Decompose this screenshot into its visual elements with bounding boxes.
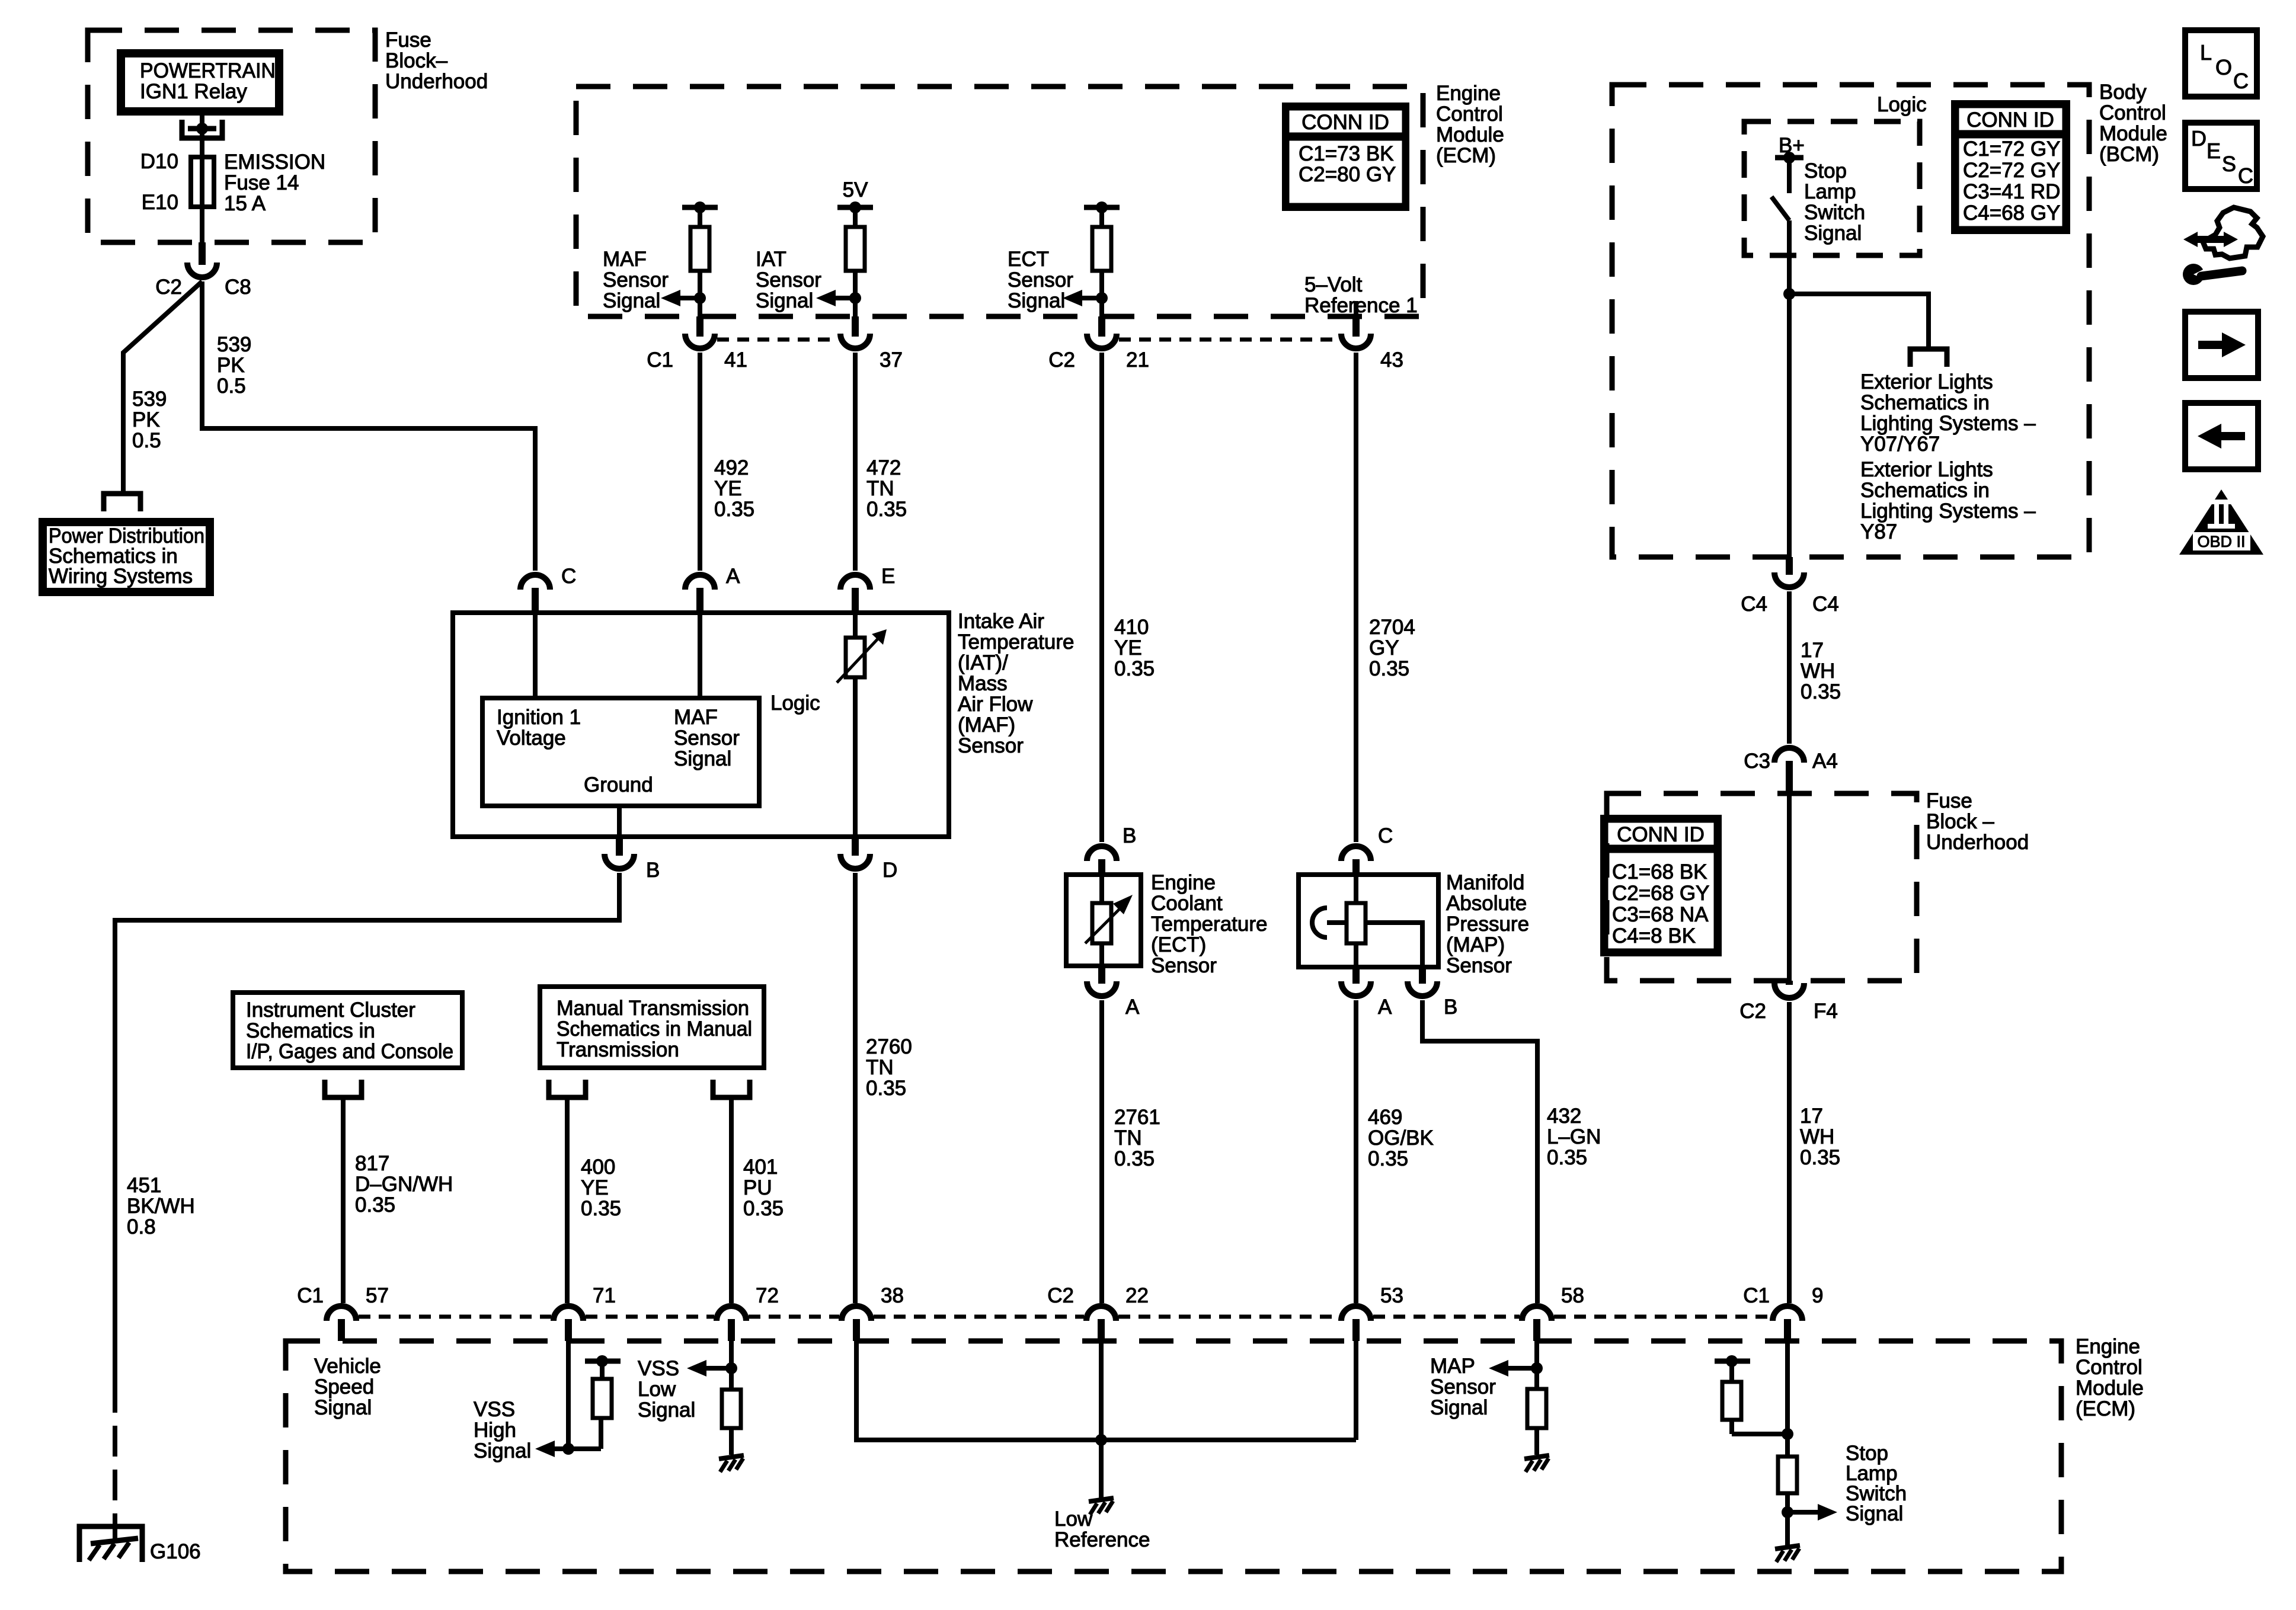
connector cup 38 (ECM bottom) — [842, 1306, 871, 1321]
svg-text:B: B — [646, 859, 660, 882]
svg-text:Block–: Block– — [385, 49, 448, 72]
svg-text:Module: Module — [1436, 123, 1504, 146]
svg-text:58: 58 — [1561, 1284, 1584, 1307]
connector dashed tie line (bottom row) — [359, 1315, 551, 1319]
connector pin 58 — [1533, 1319, 1540, 1341]
MAF connector cup B — [605, 854, 634, 869]
wire 492 YE: pin 41 to MAF A — [698, 353, 702, 571]
connector pin 37 (ECM top) — [852, 316, 859, 337]
svg-text:C: C — [1378, 824, 1393, 847]
svg-text:YE: YE — [714, 477, 742, 500]
svg-text:C: C — [2238, 164, 2253, 188]
svg-text:POWERTRAIN: POWERTRAIN — [140, 59, 276, 82]
svg-text:Schematics in Manual: Schematics in Manual — [557, 1017, 752, 1041]
svg-text:492: 492 — [714, 456, 749, 479]
junction (low reference) — [1095, 1434, 1107, 1446]
svg-text:Reference: Reference — [1054, 1528, 1150, 1551]
MAP connector cup A — [1341, 981, 1371, 996]
wire 2761 TN: ECT A to ECM pin 22 — [1099, 1000, 1104, 1303]
svg-text:0.35: 0.35 — [866, 1077, 906, 1100]
connector pin 38 — [853, 1319, 860, 1341]
MAP connector pin C — [1352, 859, 1360, 876]
ECT sensor signal pull-up rail bar — [1084, 205, 1120, 210]
wire 17 WH: BCM C4 to fuse block A4 — [1787, 591, 1792, 744]
svg-text:Wiring Systems: Wiring Systems — [49, 565, 193, 588]
svg-text:Module: Module — [2099, 122, 2167, 145]
svg-text:Instrument Cluster: Instrument Cluster — [246, 998, 415, 1022]
svg-text:Sensor: Sensor — [674, 726, 740, 750]
wire: ignition 1 voltage inside sensor — [533, 613, 538, 698]
svg-text:IGN1 Relay: IGN1 Relay — [140, 80, 247, 103]
svg-text:TN: TN — [866, 1056, 894, 1079]
MAF connector cup C — [520, 575, 550, 590]
svg-text:Manual Transmission: Manual Transmission — [557, 997, 749, 1020]
MAP sensor signal network — [1534, 1341, 1539, 1389]
wire IAT signal inside ECM — [853, 271, 858, 316]
wire 451 dashed continuation — [113, 1382, 117, 1525]
svg-text:D10: D10 — [140, 150, 178, 173]
svg-text:Y07/Y67: Y07/Y67 — [1860, 433, 1940, 456]
svg-text:17: 17 — [1800, 1105, 1823, 1128]
svg-text:15 A: 15 A — [224, 192, 266, 215]
svg-text:Sensor: Sensor — [1430, 1375, 1496, 1398]
wire 17 WH: fuse block F4 to ECM pin 9 — [1787, 1002, 1792, 1303]
svg-text:C2: C2 — [155, 276, 182, 299]
svg-text:A4: A4 — [1812, 750, 1838, 773]
svg-text:Sensor: Sensor — [756, 268, 821, 292]
svg-text:2704: 2704 — [1369, 616, 1415, 639]
junction on ECT signal — [1096, 292, 1108, 304]
svg-text:2761: 2761 — [1114, 1106, 1160, 1129]
svg-text:Control: Control — [2099, 101, 2166, 124]
svg-text:A: A — [1125, 996, 1140, 1019]
junction on MAF signal — [694, 292, 706, 304]
stop lamp switch signal network — [1785, 1341, 1790, 1457]
CONN ID table (BCM) — [1953, 103, 2068, 232]
arrow: ECT sensor signal — [1082, 296, 1102, 300]
svg-text:E10: E10 — [142, 191, 178, 214]
svg-text:C2: C2 — [1739, 1000, 1766, 1023]
svg-text:PK: PK — [217, 354, 245, 377]
wire: stop lamp switch output — [1787, 220, 1792, 557]
svg-text:0.5: 0.5 — [132, 429, 161, 452]
svg-text:Vehicle: Vehicle — [314, 1355, 381, 1378]
connector cup 58 (ECM bottom) — [1522, 1306, 1552, 1321]
VSS high signal network — [566, 1341, 571, 1449]
svg-text:WH: WH — [1801, 660, 1835, 683]
svg-text:Switch: Switch — [1804, 201, 1865, 224]
svg-text:Underhood: Underhood — [1926, 831, 2029, 854]
svg-text:Mass: Mass — [958, 672, 1008, 695]
connector cup 9 (ECM bottom) — [1773, 1306, 1802, 1321]
svg-text:C1=73 BK: C1=73 BK — [1299, 142, 1394, 165]
wire 2704 GY: pin 43 to MAP C — [1354, 353, 1358, 842]
ground (low reference) — [1089, 1498, 1114, 1502]
svg-text:Temperature: Temperature — [958, 630, 1074, 654]
svg-text:Voltage: Voltage — [497, 726, 566, 750]
svg-text:E: E — [2207, 139, 2221, 163]
svg-text:E: E — [881, 565, 895, 588]
svg-text:Sensor: Sensor — [1446, 954, 1512, 977]
BCM logic dashed box — [1744, 121, 1920, 255]
wire: IAT element lead — [853, 613, 858, 837]
wire 410 YE: pin 21 to ECT B — [1099, 353, 1104, 842]
svg-text:Control: Control — [1436, 103, 1503, 126]
svg-text:22: 22 — [1125, 1284, 1149, 1307]
MAP pressure port symbol — [1312, 908, 1327, 937]
svg-text:Absolute: Absolute — [1446, 892, 1527, 915]
svg-text:C1: C1 — [1743, 1284, 1770, 1307]
arrow: IAT sensor signal — [836, 296, 855, 300]
svg-text:(BCM): (BCM) — [2099, 143, 2159, 166]
resistor (stop lamp series) — [1778, 1457, 1797, 1493]
svg-text:Lamp: Lamp — [1804, 180, 1856, 203]
off-page bracket to power distribution — [104, 494, 140, 511]
connector cup 57 (ECM bottom) — [327, 1306, 356, 1321]
svg-text:OG/BK: OG/BK — [1368, 1126, 1434, 1150]
svg-text:L: L — [2200, 40, 2212, 65]
svg-text:Lighting Systems –: Lighting Systems – — [1860, 500, 2036, 523]
wire 401 PU to ECM pin 72 — [729, 1097, 734, 1303]
MAP sensor box — [1299, 875, 1438, 967]
wire ECT signal inside ECM — [1099, 271, 1104, 316]
svg-text:Sensor: Sensor — [1008, 268, 1073, 292]
svg-text:Exterior Lights: Exterior Lights — [1860, 370, 1993, 393]
svg-text:C1=68 BK: C1=68 BK — [1612, 860, 1707, 884]
ECT connector cup B — [1087, 846, 1117, 861]
svg-text:BK/WH: BK/WH — [127, 1195, 195, 1218]
ECT connector pin B — [1098, 859, 1105, 876]
svg-text:A: A — [726, 565, 740, 588]
svg-text:C2=68 GY: C2=68 GY — [1612, 882, 1709, 905]
svg-text:72: 72 — [756, 1284, 779, 1307]
svg-text:0.35: 0.35 — [714, 498, 754, 521]
svg-text:Engine: Engine — [1151, 871, 1216, 894]
connector cup 72 (ECM bottom) — [717, 1306, 746, 1321]
connector pin F4 — [1786, 981, 1793, 985]
connector pin 71 — [565, 1319, 572, 1341]
svg-text:YE: YE — [1114, 636, 1142, 660]
connector pin C4 — [1786, 557, 1793, 575]
MAF connector pin A — [696, 588, 703, 613]
svg-text:C1: C1 — [647, 348, 673, 372]
ECM U1 bottom dashed enclosure — [286, 1341, 2061, 1571]
svg-text:TN: TN — [866, 477, 894, 500]
svg-text:D–GN/WH: D–GN/WH — [355, 1173, 453, 1196]
svg-text:F4: F4 — [1814, 1000, 1838, 1023]
svg-text:C8: C8 — [225, 276, 251, 299]
connector pin A4 — [1786, 761, 1793, 793]
MAF/IAT sensor outer box — [453, 613, 949, 837]
svg-text:CONN ID: CONN ID — [1302, 111, 1389, 134]
svg-text:Logic: Logic — [770, 692, 820, 715]
MAF connector pin E — [852, 588, 859, 613]
svg-text:C2: C2 — [1047, 1284, 1074, 1307]
connector pin 72 — [728, 1319, 735, 1341]
MAP connector pin B — [1419, 966, 1426, 984]
icon: LOC box — [2185, 30, 2257, 97]
svg-text:Engine: Engine — [1436, 82, 1501, 105]
wire 469 OG/BK: MAP A to ECM pin 53 — [1354, 1000, 1358, 1303]
wire 451 BK/WH: MAF B ground wire — [115, 873, 619, 1382]
connector cup 21 — [1087, 334, 1117, 348]
svg-text:Signal: Signal — [1846, 1502, 1903, 1525]
svg-text:Schematics in: Schematics in — [1860, 479, 1990, 502]
svg-text:21: 21 — [1126, 348, 1149, 372]
svg-text:0.35: 0.35 — [743, 1197, 784, 1220]
svg-text:Module: Module — [2076, 1377, 2144, 1400]
svg-text:WH: WH — [1800, 1125, 1834, 1148]
connector cup 22 (ECM bottom) — [1086, 1306, 1116, 1321]
svg-text:C1: C1 — [297, 1284, 324, 1307]
svg-text:Control: Control — [2076, 1356, 2142, 1379]
svg-text:38: 38 — [881, 1284, 904, 1307]
IAT thermistor (variable resistor) — [846, 638, 865, 677]
svg-text:Signal: Signal — [638, 1398, 695, 1422]
svg-text:Logic: Logic — [1877, 93, 1927, 116]
ground (stop lamp) — [1775, 1545, 1800, 1549]
wire 539 PK (C8 branch) to MAF ignition voltage — [202, 281, 535, 571]
svg-text:400: 400 — [581, 1156, 615, 1179]
svg-text:41: 41 — [724, 348, 747, 372]
resistor (MAP signal) — [1527, 1389, 1546, 1428]
svg-text:IAT: IAT — [756, 248, 786, 271]
stop lamp switch blade — [1771, 197, 1789, 220]
svg-text:Lighting Systems –: Lighting Systems – — [1860, 412, 2036, 435]
svg-text:YE: YE — [581, 1176, 609, 1199]
connector pin 41 (ECM top) — [696, 316, 703, 337]
svg-text:Sensor: Sensor — [1151, 954, 1217, 977]
svg-text:C: C — [2233, 69, 2249, 93]
wire 400 YE to ECM pin 71 — [565, 1097, 570, 1303]
svg-text:PU: PU — [743, 1176, 772, 1199]
wire: pin 53 low reference — [1354, 1341, 1358, 1440]
CONN ID table (ECM) — [1284, 105, 1407, 209]
connector pin 22 — [1098, 1319, 1105, 1341]
svg-text:(MAF): (MAF) — [958, 713, 1015, 737]
wire 2760 TN: MAF D to ECM pin 38 — [853, 873, 858, 1303]
connector cup 53 (ECM bottom) — [1341, 1306, 1371, 1321]
svg-text:OBD II: OBD II — [2197, 533, 2245, 550]
connector cup C4 — [1774, 572, 1804, 587]
fuse block underhood (right) dashed enclosure — [1607, 793, 1917, 981]
svg-text:(MAP): (MAP) — [1446, 933, 1505, 956]
svg-text:451: 451 — [127, 1174, 161, 1197]
resistor (MAF pull-up) — [698, 207, 702, 227]
svg-text:C: C — [561, 565, 576, 588]
ground G106 — [79, 1526, 142, 1562]
off-page bracket (manual trans A) — [549, 1080, 586, 1097]
icon: DESC box — [2185, 123, 2257, 189]
svg-text:Signal: Signal — [756, 289, 813, 312]
connector dashed tie line C2 — [1119, 338, 1339, 342]
junction on IAT signal — [849, 292, 861, 304]
resistor (IAT pull-up) — [853, 207, 858, 227]
svg-text:(ECM): (ECM) — [1436, 144, 1496, 167]
MAF logic inner box — [482, 698, 759, 806]
svg-text:CONN ID: CONN ID — [1617, 823, 1705, 846]
svg-text:37: 37 — [880, 348, 903, 372]
off-page bracket (exterior lights) — [1910, 349, 1947, 367]
svg-text:Low: Low — [638, 1378, 676, 1401]
svg-text:Block –: Block – — [1926, 810, 1994, 833]
ground (MAP signal) — [1524, 1455, 1549, 1459]
MAP sense resistor — [1354, 875, 1358, 903]
resistor (VSS high pull-up) — [599, 1418, 603, 1449]
svg-text:ECT: ECT — [1008, 248, 1049, 271]
off-page bracket (instrument cluster) — [325, 1080, 362, 1097]
svg-text:MAP: MAP — [1430, 1355, 1475, 1378]
connector cup 41 — [685, 334, 715, 348]
relay terminal bracket — [182, 120, 222, 138]
svg-text:17: 17 — [1801, 639, 1824, 662]
MAF connector pin C — [532, 588, 539, 613]
svg-text:Signal: Signal — [603, 289, 660, 312]
svg-text:Transmission: Transmission — [557, 1038, 679, 1061]
svg-text:Temperature: Temperature — [1151, 913, 1267, 936]
B+ feed bar — [1775, 155, 1803, 161]
MAF connector pin B — [616, 837, 623, 856]
svg-text:0.35: 0.35 — [1114, 657, 1155, 680]
svg-text:A: A — [1378, 996, 1392, 1019]
svg-text:Signal: Signal — [474, 1439, 531, 1462]
svg-text:C3=41 RD: C3=41 RD — [1963, 180, 2060, 203]
svg-text:43: 43 — [1380, 348, 1403, 372]
svg-text:57: 57 — [366, 1284, 389, 1307]
svg-text:Schematics in: Schematics in — [246, 1019, 375, 1042]
ground (VSS low) — [719, 1455, 744, 1459]
svg-text:High: High — [474, 1419, 516, 1442]
wire 817 D-GN/WH to ECM pin 57 — [341, 1097, 346, 1303]
connector cup 37 — [840, 334, 870, 348]
svg-text:O: O — [2215, 55, 2232, 79]
svg-text:C1=72 GY: C1=72 GY — [1963, 137, 2060, 161]
svg-text:VSS: VSS — [474, 1398, 515, 1421]
wire: MAF signal inside sensor — [698, 613, 702, 698]
svg-text:5V: 5V — [843, 178, 868, 201]
svg-text:Signal: Signal — [314, 1396, 372, 1419]
svg-text:Signal: Signal — [674, 747, 731, 770]
wire: pin 22 low reference — [1099, 1341, 1104, 1498]
wire: MAP output to pin B — [1366, 923, 1422, 967]
icon: diagnostic wrench — [2203, 207, 2263, 258]
reference box: Instrument Cluster Schematics — [233, 993, 462, 1068]
MAF connector cup A — [685, 575, 715, 590]
svg-text:0.35: 0.35 — [1800, 1146, 1840, 1169]
svg-text:D: D — [882, 859, 897, 882]
svg-text:2760: 2760 — [866, 1035, 912, 1058]
svg-text:71: 71 — [593, 1284, 616, 1307]
svg-text:0.5: 0.5 — [217, 375, 246, 398]
connector cup C3/A4 — [1774, 748, 1804, 763]
svg-text:Pressure: Pressure — [1446, 913, 1529, 936]
svg-text:Reference 1: Reference 1 — [1304, 294, 1418, 317]
wire: 5-volt reference inside ECM — [1354, 301, 1358, 316]
svg-text:0.35: 0.35 — [1369, 657, 1409, 680]
ECT thermistor — [1099, 875, 1104, 903]
wire: ground lead inside sensor — [617, 806, 622, 837]
svg-text:0.35: 0.35 — [1114, 1147, 1155, 1170]
svg-text:Fuse 14: Fuse 14 — [224, 171, 299, 194]
svg-text:C4: C4 — [1812, 593, 1839, 616]
ECM U1 top dashed enclosure — [576, 87, 1423, 316]
svg-text:539: 539 — [217, 333, 251, 356]
MAP connector pin A — [1352, 966, 1360, 984]
reference box: Manual Transmission Schematics — [540, 987, 764, 1068]
svg-text:S: S — [2222, 152, 2236, 176]
svg-text:Engine: Engine — [2076, 1335, 2140, 1358]
connector pin 21 (ECM top) — [1098, 316, 1105, 337]
svg-text:Stop: Stop — [1804, 159, 1847, 183]
ECT connector pin A — [1098, 966, 1105, 984]
IAT sensor signal pull-up rail bar — [837, 205, 873, 210]
connector cup 43 — [1341, 334, 1371, 348]
MAF connector cup D — [840, 854, 870, 869]
svg-text:53: 53 — [1380, 1284, 1403, 1307]
resistor (stop lamp pull-up) — [1722, 1382, 1741, 1420]
svg-text:9: 9 — [1812, 1284, 1823, 1307]
svg-text:C4=68 GY: C4=68 GY — [1963, 201, 2060, 225]
svg-text:0.35: 0.35 — [1368, 1147, 1408, 1170]
svg-text:Manifold: Manifold — [1446, 871, 1524, 894]
svg-text:Body: Body — [2099, 81, 2147, 104]
connector pin 53 — [1352, 1319, 1360, 1341]
wire: low reference bus from pin 38 — [856, 1341, 1356, 1440]
svg-text:CONN ID: CONN ID — [1966, 108, 2054, 132]
wire 472 TN: pin 37 to MAF E — [853, 353, 858, 571]
svg-text:B: B — [1444, 996, 1457, 1019]
ECT connector cup A — [1087, 981, 1117, 996]
svg-text:472: 472 — [866, 456, 901, 479]
svg-text:TN: TN — [1114, 1126, 1142, 1150]
connector cup 71 (ECM bottom) — [554, 1306, 583, 1321]
svg-text:L–GN: L–GN — [1547, 1125, 1601, 1148]
svg-text:MAF: MAF — [603, 248, 647, 271]
svg-text:Exterior Lights: Exterior Lights — [1860, 458, 1993, 481]
svg-text:5–Volt: 5–Volt — [1304, 273, 1363, 296]
wire 539 PK (C2 branch) to power distribution — [123, 281, 202, 494]
svg-text:Fuse: Fuse — [1926, 789, 1972, 812]
svg-text:C2=80 GY: C2=80 GY — [1299, 163, 1396, 186]
svg-text:B: B — [1123, 824, 1136, 847]
svg-text:401: 401 — [743, 1156, 778, 1179]
wire from B+ — [1787, 158, 1792, 193]
wire: fuse to block edge — [200, 207, 204, 242]
svg-text:C4: C4 — [1741, 593, 1767, 616]
MAF sensor signal pull-up rail bar — [682, 205, 718, 210]
ECT sensor box — [1066, 875, 1141, 966]
svg-text:C3: C3 — [1744, 750, 1770, 773]
relay K: POWERTRAIN IGN1 Relay box — [121, 53, 279, 111]
svg-text:0.35: 0.35 — [1547, 1146, 1587, 1169]
icon: left arrow box — [2185, 403, 2258, 469]
svg-text:Y87: Y87 — [1860, 520, 1897, 543]
svg-text:C2: C2 — [1048, 348, 1075, 372]
svg-text:469: 469 — [1368, 1106, 1402, 1129]
svg-text:Signal: Signal — [1008, 289, 1065, 312]
svg-text:Signal: Signal — [1804, 222, 1862, 245]
junction to exterior lights — [1783, 288, 1795, 300]
svg-text:0.35: 0.35 — [866, 498, 907, 521]
svg-text:Ignition 1: Ignition 1 — [497, 706, 581, 729]
wire 432 L-GN: MAP B to ECM pin 58 — [1422, 1000, 1537, 1303]
connector pin 57 — [338, 1319, 345, 1341]
svg-text:Intake Air: Intake Air — [958, 610, 1044, 633]
resistor (VSS low) — [722, 1390, 741, 1428]
wire: relay output lead — [200, 111, 204, 157]
svg-text:I/P, Gages and Console: I/P, Gages and Console — [246, 1040, 453, 1063]
VSS low signal network — [729, 1341, 734, 1390]
